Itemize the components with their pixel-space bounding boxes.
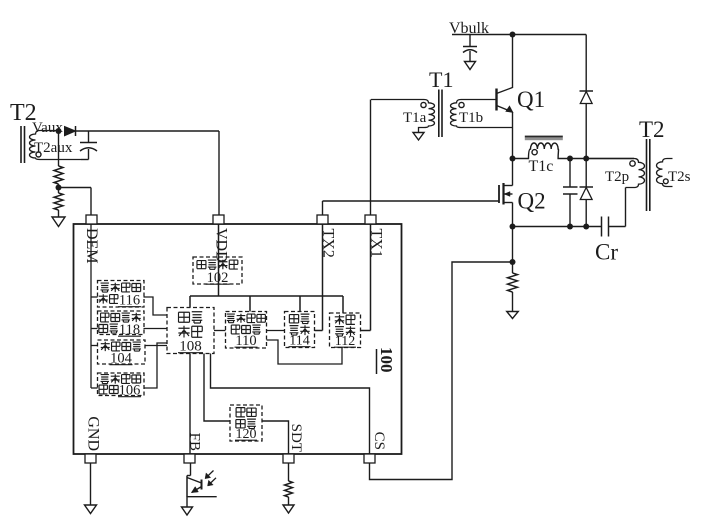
svg-text:GND: GND xyxy=(85,416,102,451)
svg-text:T1c: T1c xyxy=(529,158,554,175)
svg-text:FB: FB xyxy=(187,433,203,451)
svg-text:T2aux: T2aux xyxy=(34,140,73,156)
svg-text:Cr: Cr xyxy=(595,240,618,265)
svg-text:T2: T2 xyxy=(639,117,665,142)
svg-text:Q2: Q2 xyxy=(518,189,546,214)
svg-text:CS: CS xyxy=(371,432,387,450)
svg-text:T1a: T1a xyxy=(403,110,427,126)
svg-text:T2p: T2p xyxy=(605,169,629,185)
svg-text:100: 100 xyxy=(377,347,396,373)
svg-text:SDT: SDT xyxy=(288,424,304,452)
svg-text:T1b: T1b xyxy=(459,110,483,126)
svg-text:T2s: T2s xyxy=(668,169,691,185)
svg-text:T1: T1 xyxy=(429,67,453,92)
svg-text:Q1: Q1 xyxy=(517,87,545,112)
